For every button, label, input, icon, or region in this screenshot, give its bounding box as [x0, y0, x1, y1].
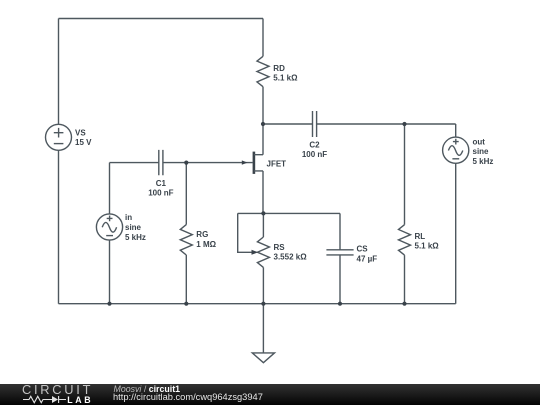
wire top rail: [59, 18, 264, 20]
wire out branch lower: [455, 163, 457, 303]
footer url line: [113, 392, 263, 402]
svg-text:VS: VS: [75, 128, 86, 137]
svg-text:C2: C2: [309, 141, 320, 150]
footer title line: [114, 384, 181, 394]
svg-text:JFET: JFET: [267, 159, 287, 168]
label C2 value: [302, 141, 327, 160]
node bottom ground: [261, 302, 265, 306]
svg-text:in: in: [125, 213, 132, 222]
CircuitLab logo wordmark: [22, 382, 93, 397]
label CS value: [357, 245, 378, 264]
source out: [443, 137, 469, 163]
capacitor CS: [326, 250, 353, 255]
wire C2 left: [263, 123, 313, 125]
capacitor C1: [110, 150, 187, 175]
label RS value: [274, 243, 308, 262]
svg-text:47 µF: 47 µF: [357, 254, 378, 263]
wire CS bottom: [339, 255, 341, 304]
CircuitLab logo symbol row: [22, 395, 94, 404]
label in value: [125, 213, 146, 242]
wire left rail lower: [58, 150, 60, 303]
wire RL top: [404, 124, 406, 225]
svg-text:100 nF: 100 nF: [148, 189, 173, 198]
svg-text:5 kHz: 5 kHz: [125, 233, 146, 242]
svg-text:RS: RS: [274, 243, 286, 252]
wiper arm RS: [238, 213, 259, 254]
wire left rail upper: [58, 19, 60, 125]
node bottom RL: [402, 302, 406, 306]
resistor RS: [257, 237, 269, 267]
svg-text:5.1 kΩ: 5.1 kΩ: [415, 242, 440, 251]
transistor JFET: [186, 152, 263, 174]
node bottom in: [107, 302, 111, 306]
CircuitLab logo LAB text: [67, 395, 93, 405]
node source junction: [261, 211, 265, 215]
wire drain rail upper: [262, 19, 264, 57]
label RD value: [273, 64, 298, 83]
wire RG top: [185, 163, 187, 225]
ground: [252, 353, 274, 363]
wire C2 right: [317, 123, 456, 125]
svg-text:5 kHz: 5 kHz: [473, 157, 494, 166]
svg-text:C1: C1: [156, 179, 167, 188]
wire RL bottom: [404, 255, 406, 304]
node RL top junction: [402, 122, 406, 126]
svg-text:15 V: 15 V: [75, 138, 92, 147]
label C1 value: [148, 179, 173, 198]
svg-text:5.1 kΩ: 5.1 kΩ: [273, 74, 298, 83]
wire drain rail lower: [262, 87, 264, 155]
svg-text:RD: RD: [273, 64, 285, 73]
node gate junction: [184, 161, 188, 165]
svg-text:sine: sine: [473, 147, 490, 156]
wire ground stem: [262, 304, 264, 353]
svg-text:out: out: [473, 138, 486, 147]
wire RS top: [262, 213, 264, 237]
label out value: [473, 138, 494, 166]
capacitor C2: [313, 111, 317, 137]
source in: [96, 214, 122, 240]
svg-text:3.552 kΩ: 3.552 kΩ: [274, 253, 308, 262]
wire source lead: [262, 171, 264, 214]
svg-text:sine: sine: [125, 223, 142, 232]
label JFET: [267, 159, 287, 168]
label RL value: [415, 232, 440, 251]
wire out branch upper: [455, 124, 457, 137]
wire CS top: [339, 213, 341, 249]
resistor RD: [257, 56, 269, 86]
wire RG bottom: [185, 255, 187, 304]
label RG value: [196, 230, 216, 249]
node bottom RG: [184, 302, 188, 306]
node bottom CS: [338, 302, 342, 306]
wire RS bottom: [262, 267, 264, 303]
voltage source VS: [46, 124, 72, 150]
svg-text:1 MΩ: 1 MΩ: [196, 240, 216, 249]
svg-text:RL: RL: [415, 232, 426, 241]
node drain junction: [261, 122, 265, 126]
resistor RL: [399, 225, 411, 255]
wire bottom rail: [59, 303, 456, 305]
wire source node: [238, 212, 340, 214]
svg-text:CS: CS: [357, 245, 369, 254]
svg-text:RG: RG: [196, 230, 208, 239]
label VS value: [75, 128, 92, 147]
wire in branch upper: [109, 163, 111, 214]
wire in branch lower: [109, 240, 111, 304]
resistor RG: [180, 225, 192, 255]
svg-text:100 nF: 100 nF: [302, 150, 327, 159]
